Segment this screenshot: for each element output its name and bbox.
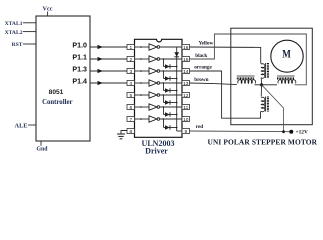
svg-text:P1.0: P1.0 [72, 41, 87, 49]
svg-text:Controller: Controller [42, 99, 72, 106]
node junction on red wire [282, 130, 285, 133]
svg-text:orrange: orrange [194, 65, 212, 71]
buffer channel 2 [135, 56, 183, 62]
coil L1 left winding [237, 76, 256, 83]
wire P1.0 to pin1 with arrow [90, 45, 127, 49]
svg-text:M: M [282, 49, 291, 61]
pin ALE [15, 122, 36, 129]
stepper motor enclosure box [231, 28, 312, 125]
svg-text:11: 11 [183, 105, 188, 111]
diode D4 channel 4 [163, 82, 178, 93]
pin 8 box [127, 129, 135, 135]
wire P1.4 to pin4 with arrow [90, 81, 127, 85]
node +12V terminal [289, 130, 293, 134]
diode D2 channel 2 [163, 58, 178, 68]
wire P1.3 to pin3 with arrow [90, 69, 127, 73]
svg-text:+12V: +12V [296, 130, 308, 136]
svg-text:14: 14 [183, 69, 189, 75]
buffer channel 7 [135, 116, 183, 122]
node Gnd [37, 141, 49, 153]
svg-text:7: 7 [129, 117, 132, 123]
svg-text:8: 8 [129, 129, 132, 135]
svg-text:16: 16 [183, 45, 189, 51]
svg-text:5: 5 [129, 93, 132, 99]
pin 4 box [127, 81, 135, 87]
svg-text:1: 1 [129, 45, 132, 51]
pin 9 box [182, 129, 190, 135]
buffer channel 4 [135, 80, 183, 86]
node center tap [260, 83, 263, 86]
svg-text:2: 2 [129, 57, 132, 63]
pin 11 box [182, 105, 190, 111]
wire red pin9 to +12V [190, 130, 292, 133]
pin 5 box [127, 93, 135, 99]
diode D3 channel 3 [163, 70, 178, 81]
wire P1.1 to pin2 with arrow [90, 57, 127, 61]
wire yellow pin16 to top coil [190, 47, 261, 63]
pin 7 box [127, 117, 135, 123]
buffer channel 1 [135, 44, 183, 50]
svg-text:brown: brown [194, 77, 208, 83]
svg-text:black: black [195, 53, 207, 59]
wire black pin15 to right coil [190, 34, 307, 85]
pin 6 box [127, 105, 135, 111]
svg-text:10: 10 [183, 117, 189, 123]
svg-text:9: 9 [184, 129, 187, 135]
svg-text:3: 3 [129, 69, 132, 75]
svg-text:6: 6 [129, 105, 132, 111]
buffer channel 6 [135, 104, 183, 110]
svg-text:RST: RST [12, 42, 23, 48]
diode D5 channel 5 [163, 94, 178, 105]
coil L2 right winding [277, 76, 296, 83]
diode D6 channel 6 [163, 106, 178, 117]
svg-text:4: 4 [129, 81, 132, 87]
svg-text:13: 13 [183, 81, 189, 87]
svg-text:8051: 8051 [49, 89, 64, 96]
pin 16 box [182, 45, 190, 51]
wire orange pin14 to bottom coil [190, 71, 261, 118]
motor M [271, 40, 303, 72]
svg-text:Gnd: Gnd [37, 147, 49, 153]
buffer channel 3 [135, 68, 183, 74]
buffer channel 5 [135, 92, 183, 98]
svg-text:XTAL1: XTAL1 [5, 21, 23, 27]
op-amp U2: ULN2003 chip body [135, 39, 183, 137]
svg-text:ALE: ALE [15, 122, 28, 129]
wire center tap to +12V [262, 85, 284, 132]
diode D1 on rail [174, 52, 179, 57]
svg-text:12: 12 [183, 93, 189, 99]
op-amp U1: 8051 controller box [36, 16, 90, 141]
pin 15 box [182, 57, 190, 63]
pin 3 box [127, 69, 135, 75]
pin XTAL2 [5, 30, 36, 36]
ground at pin 8 [117, 131, 127, 139]
svg-text:P1.4: P1.4 [72, 77, 87, 85]
COM rail to pin 9 [177, 47, 182, 131]
svg-text:red: red [196, 124, 204, 130]
svg-text:UNI POLAR STEPPER MOTOR: UNI POLAR STEPPER MOTOR [208, 138, 318, 147]
svg-text:15: 15 [183, 57, 189, 63]
svg-text:Vcc: Vcc [43, 6, 53, 13]
svg-text:P1.1: P1.1 [72, 53, 87, 61]
pin 12 box [182, 93, 190, 99]
node Vcc [43, 6, 53, 17]
pin 1 box [127, 45, 135, 51]
pin 13 box [182, 81, 190, 87]
wire brown pin13 to left coil [190, 83, 237, 85]
pin 10 box [182, 117, 190, 123]
svg-text:Driver: Driver [145, 146, 168, 155]
pin XTAL1 [5, 21, 36, 27]
coil L4 bottom winding [261, 85, 268, 112]
pin RST [12, 42, 36, 48]
diode D7 channel 7 [163, 118, 178, 130]
svg-text:XTAL2: XTAL2 [5, 30, 23, 36]
pin 14 box [182, 69, 190, 75]
wire center axis between coils [255, 84, 278, 86]
svg-text:P1.3: P1.3 [72, 65, 87, 73]
svg-text:Yellow: Yellow [199, 41, 214, 47]
coil L3 top winding [261, 63, 268, 85]
pin 2 box [127, 57, 135, 63]
